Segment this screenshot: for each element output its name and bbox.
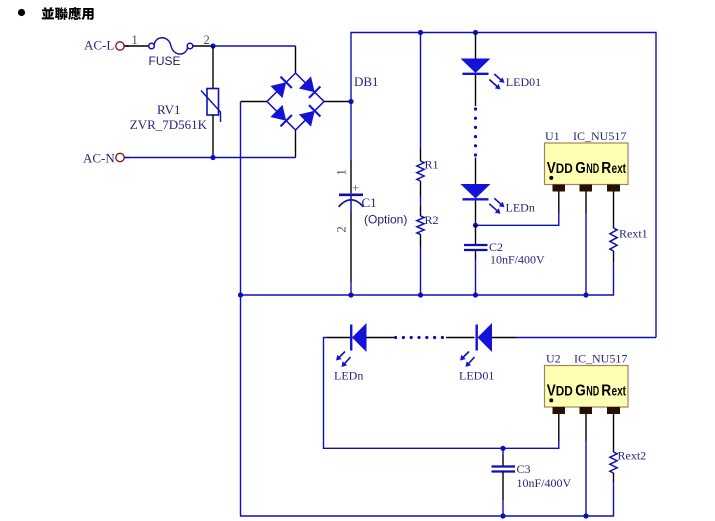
svg-text:VDDGNDRext: VDDGNDRext	[547, 382, 627, 399]
bridge pin top	[295, 46, 297, 73]
svg-text:AC-L: AC-L	[84, 38, 114, 53]
wire top bus to LED01	[475, 33, 477, 59]
fuse FUSE	[149, 38, 193, 68]
bridge diode top-right	[299, 76, 315, 92]
svg-text:U2: U2	[546, 352, 561, 366]
wire C1 to mid bus	[350, 282, 352, 295]
junction mid bus / C1	[348, 292, 353, 297]
wire Rext2 to bottom bus	[613, 473, 615, 482]
wire LED01 down	[475, 75, 477, 106]
bridge pin left	[241, 101, 268, 103]
svg-text:2: 2	[335, 226, 349, 232]
svg-text:(Option): (Option)	[364, 213, 407, 227]
wire U2 Rext down	[613, 414, 615, 452]
junction VDD wire / C3	[500, 446, 505, 451]
wire LEDn to corner	[327, 337, 350, 339]
wire C2 to mid bus	[475, 259, 477, 295]
svg-text:VDDGNDRext: VDDGNDRext	[547, 160, 627, 177]
capacitor C3 10nF/400V	[492, 448, 572, 500]
op-amp U1 IC_NU517	[545, 129, 629, 192]
wire U1 GND to mid bus	[585, 192, 587, 214]
wire DB1 node to C1	[350, 102, 352, 161]
svg-text:U1: U1	[545, 129, 560, 143]
junction bottom bus / C3	[500, 513, 505, 518]
wire right vertical to LED01 string2	[517, 337, 657, 339]
bridge diode bottom-right	[299, 111, 315, 127]
op-amp U2 IC_NU517	[545, 352, 629, 415]
LED LEDn (string 1)	[461, 184, 535, 215]
bridge pin bottom	[295, 130, 297, 158]
wire node2 down to RV1	[212, 46, 214, 89]
svg-text:LEDn: LEDn	[506, 201, 535, 215]
wire top bus and right vertical	[351, 33, 656, 338]
wire fuse to node 2	[193, 45, 213, 47]
svg-text:C3: C3	[517, 462, 531, 476]
svg-text:ZVR_7D561K: ZVR_7D561K	[130, 117, 208, 132]
capacitor C1 (Option)	[335, 160, 408, 282]
junction mid bus / R2	[418, 292, 423, 297]
bridge rectifier DB1	[267, 73, 379, 130]
svg-text:RV1: RV1	[157, 102, 181, 117]
wire AC-L to fuse	[125, 45, 149, 47]
junction top bus / LED string	[473, 30, 478, 35]
svg-text:10nF/400V: 10nF/400V	[517, 476, 572, 490]
wire junction to U1 VDD	[476, 213, 559, 225]
junction AC-N / RV1	[210, 155, 215, 160]
LED LED01 (string 1)	[461, 59, 542, 90]
junction mid bus / U1 GND	[583, 292, 588, 297]
wire top bus to R1	[420, 33, 422, 149]
wire bridge left to mid bus	[240, 102, 242, 296]
wire node2 to bridge top	[213, 45, 296, 47]
svg-text:1: 1	[335, 169, 349, 175]
svg-text:FUSE: FUSE	[149, 54, 181, 68]
wire Rext1 to mid bus	[613, 251, 615, 262]
junction top bus / R1	[418, 30, 423, 35]
wire string2 left down to VDD row	[324, 338, 559, 449]
svg-text:LED01: LED01	[506, 75, 541, 89]
U1 pin VDD	[553, 185, 566, 192]
svg-text:10nF/400V: 10nF/400V	[490, 253, 545, 267]
svg-text:Rext2: Rext2	[618, 449, 647, 463]
svg-text:Rext1: Rext1	[619, 227, 648, 241]
junction mid bus / C2	[473, 292, 478, 297]
capacitor C2 10nF/400V	[464, 225, 545, 266]
bridge diode top-left	[270, 82, 286, 98]
LED LED01 (string 2)	[459, 323, 494, 383]
wire LED01 left pin	[446, 337, 475, 339]
node 2 junction	[210, 43, 215, 48]
junction bottom bus / U2 GND	[583, 513, 588, 518]
wire LEDn to node	[475, 201, 477, 226]
resistor Rext1	[610, 228, 617, 251]
wire R1 to R2	[420, 181, 422, 196]
svg-text:1: 1	[132, 33, 138, 47]
wire U2 GND to bottom bus	[585, 414, 587, 441]
resistor Rext2	[610, 452, 617, 473]
U2 pin VDD	[553, 407, 566, 414]
bullet	[18, 9, 25, 16]
resistor R1	[417, 161, 424, 181]
U1 pin Rext	[607, 185, 620, 192]
wire AC-N to bridge bottom	[125, 157, 296, 159]
wire RV1 to AC-N	[212, 115, 214, 158]
title 並聯應用	[42, 7, 94, 20]
svg-text:DB1: DB1	[354, 74, 379, 89]
svg-text:C1: C1	[362, 195, 377, 210]
wire to LEDn string2	[367, 337, 395, 339]
svg-text:AC-N: AC-N	[83, 151, 115, 166]
U1 pin GND	[580, 185, 593, 192]
junction LEDn / VDD / C2	[473, 223, 478, 228]
svg-text:R1: R1	[425, 158, 439, 172]
wire R2 to mid bus	[420, 235, 422, 248]
svg-text:LED01: LED01	[459, 369, 494, 383]
U2 pin GND	[580, 407, 593, 414]
dotted string continuation 2	[394, 336, 444, 339]
bridge pin right	[324, 101, 351, 103]
wire U1 Rext down	[613, 192, 615, 229]
LED LEDn (string 2)	[334, 323, 367, 383]
wire to LEDn	[475, 158, 477, 185]
U2 pin Rext	[607, 407, 620, 414]
svg-text:+: +	[352, 181, 359, 195]
junction DB1 output	[348, 99, 353, 104]
varistor RV1 ZVR_7D561K	[130, 89, 221, 133]
resistor R2	[417, 216, 424, 235]
svg-text:2: 2	[204, 33, 210, 47]
svg-text:IC_NU517: IC_NU517	[574, 352, 627, 366]
dotted string continuation	[474, 107, 477, 156]
bridge diode bottom-left	[270, 105, 286, 121]
svg-text:R2: R2	[425, 213, 439, 227]
junction mid bus / left vertical	[238, 292, 243, 297]
svg-text:IC_NU517: IC_NU517	[573, 129, 626, 143]
wire C3 to bottom bus	[502, 500, 504, 516]
svg-text:LEDn: LEDn	[334, 369, 363, 383]
